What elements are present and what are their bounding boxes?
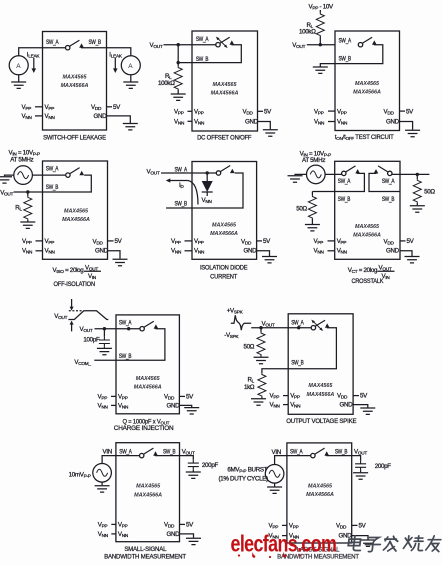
svg-text:AT 5MHz: AT 5MHz (10, 156, 33, 163)
svg-text:SW_B: SW_B (335, 449, 348, 456)
svg-text:VPP: VPP (45, 238, 55, 245)
svg-text:SW_B: SW_B (46, 184, 59, 191)
svg-text:VNN: VNN (98, 402, 108, 409)
svg-text:VNN: VNN (118, 402, 128, 409)
svg-text:VPP: VPP (118, 521, 128, 528)
svg-text:VDD: VDD (336, 522, 347, 529)
svg-text:VDD: VDD (384, 108, 395, 115)
svg-text:OUTPUT VOLTAGE SPIKE: OUTPUT VOLTAGE SPIKE (286, 418, 356, 425)
svg-text:100pF: 100pF (83, 336, 100, 343)
svg-text:100kΩ: 100kΩ (158, 80, 175, 87)
svg-text:VIN: VIN (88, 273, 96, 280)
svg-text:1kΩ: 1kΩ (244, 384, 255, 391)
svg-text:VPP: VPP (314, 238, 324, 245)
svg-text:VCT = 20log: VCT = 20log (348, 267, 378, 274)
svg-text:VDD: VDD (164, 393, 175, 400)
svg-text:6MVP-P BURST: 6MVP-P BURST (227, 467, 267, 474)
svg-text:VPP: VPP (22, 238, 32, 245)
svg-text:5V: 5V (186, 521, 194, 528)
svg-text:SW_A: SW_A (196, 36, 209, 43)
svg-text:VOUT: VOUT (0, 189, 13, 196)
svg-text:VPP: VPP (171, 238, 181, 245)
svg-text:ID: ID (179, 182, 184, 189)
svg-text:5V: 5V (406, 108, 414, 115)
svg-text:GND: GND (167, 402, 181, 409)
svg-text:5V: 5V (186, 393, 194, 400)
svg-text:VPP: VPP (269, 522, 279, 529)
svg-text:ILEAK: ILEAK (27, 52, 41, 59)
svg-text:VDD: VDD (241, 238, 252, 245)
svg-text:VCOM_: VCOM_ (74, 359, 91, 366)
svg-text:VNN: VNN (202, 197, 212, 204)
svg-text:SW_B: SW_B (175, 201, 188, 208)
svg-text:VPP: VPP (174, 108, 184, 115)
svg-text:VPP: VPP (194, 238, 204, 245)
svg-text:SW_B: SW_B (338, 196, 351, 203)
svg-text:SW_B: SW_B (89, 39, 102, 46)
svg-text:VOUT: VOUT (150, 42, 163, 49)
svg-text:SW_A: SW_A (46, 39, 59, 46)
svg-text:VNN: VNN (314, 248, 324, 255)
svg-text:GND: GND (95, 248, 109, 255)
svg-text:MAX4566A: MAX4566A (211, 91, 239, 97)
svg-text:+VSPK: +VSPK (227, 307, 244, 314)
svg-text:MAX4566A: MAX4566A (353, 233, 381, 239)
svg-text:VOUT: VOUT (379, 265, 392, 272)
svg-text:VOUT: VOUT (262, 321, 275, 328)
svg-text:VNN: VNN (174, 118, 184, 125)
svg-text:SMALL-SIGNAL: SMALL-SIGNAL (124, 546, 167, 553)
svg-text:5V: 5V (407, 238, 415, 245)
svg-text:50Ω: 50Ω (424, 188, 435, 195)
svg-text:VNN: VNN (337, 248, 347, 255)
svg-text:GND: GND (386, 248, 400, 255)
svg-text:SW_A: SW_A (290, 449, 303, 456)
svg-text:A: A (16, 63, 21, 70)
svg-text:SW_A: SW_A (291, 319, 304, 326)
svg-text:GND: GND (340, 402, 354, 409)
svg-text:GND: GND (244, 248, 258, 255)
svg-text:(1% DUTY CYCLE): (1% DUTY CYCLE) (219, 475, 269, 482)
svg-text:VPP - 10V: VPP - 10V (309, 4, 334, 11)
svg-text:VPP: VPP (98, 521, 108, 528)
svg-text:5V: 5V (263, 238, 271, 245)
svg-text:VOUT: VOUT (54, 313, 67, 320)
svg-text:5V: 5V (360, 393, 368, 400)
svg-text:BANDWIDTH MEASUREMENT: BANDWIDTH MEASUREMENT (104, 553, 186, 560)
svg-text:VNN: VNN (194, 118, 204, 125)
svg-text:MAX4565: MAX4565 (212, 223, 237, 229)
svg-text:VOUT: VOUT (147, 169, 160, 176)
svg-text:MAX4566A: MAX4566A (61, 83, 89, 89)
svg-text:tON/tOFF TEST CIRCUIT: tON/tOFF TEST CIRCUIT (335, 135, 394, 141)
svg-text:VPP: VPP (290, 393, 300, 400)
svg-text:VPP: VPP (337, 108, 347, 115)
svg-text:SWITCH-OFF LEAKAGE: SWITCH-OFF LEAKAGE (43, 135, 106, 141)
svg-text:MAX4566A: MAX4566A (210, 231, 238, 237)
svg-text:SW_A: SW_A (119, 320, 132, 327)
svg-text:MAX4565: MAX4565 (136, 376, 161, 382)
svg-text:MAX4565: MAX4565 (355, 224, 380, 230)
svg-text:VPP: VPP (118, 393, 128, 400)
svg-text:VPP: VPP (270, 393, 280, 400)
svg-text:ISOLATION DIODE: ISOLATION DIODE (200, 265, 248, 271)
svg-text:VNN: VNN (22, 113, 32, 120)
svg-text:VPP: VPP (98, 393, 108, 400)
svg-text:GND: GND (245, 118, 259, 125)
svg-text:VOUT: VOUT (80, 326, 93, 333)
svg-text:SW_A: SW_A (119, 449, 132, 456)
svg-text:MAX4565: MAX4565 (213, 82, 238, 88)
svg-text:50Ω: 50Ω (296, 206, 307, 213)
svg-text:VDD: VDD (93, 238, 104, 245)
svg-text:DC OFFSET ON/OFF: DC OFFSET ON/OFF (197, 135, 252, 141)
svg-text:OFF-ISOLATION: OFF-ISOLATION (53, 282, 94, 288)
svg-text:VIN: VIN (272, 449, 281, 456)
svg-text:MAX4566A: MAX4566A (306, 492, 334, 498)
svg-text:VNN: VNN (45, 113, 55, 120)
svg-text:CURRENT: CURRENT (210, 274, 237, 280)
svg-text:GND: GND (386, 119, 400, 126)
svg-text:5V: 5V (359, 522, 367, 529)
svg-text:SW_A: SW_A (46, 166, 59, 173)
svg-text:VNN: VNN (194, 248, 204, 255)
svg-text:SW_B: SW_B (339, 56, 352, 63)
svg-text:VNN: VNN (314, 119, 324, 126)
svg-text:VNN: VNN (22, 248, 32, 255)
svg-text:-VSPK: -VSPK (224, 332, 239, 339)
svg-text:SW_A: SW_A (382, 178, 395, 185)
svg-text:RL: RL (248, 376, 255, 383)
svg-text:VPP: VPP (194, 108, 204, 115)
svg-text:ILEAK: ILEAK (109, 52, 123, 59)
svg-text:5V: 5V (113, 104, 121, 111)
svg-text:VDD: VDD (243, 108, 254, 115)
svg-text:MAX4565: MAX4565 (136, 484, 161, 490)
svg-text:CHARGE INJECTION: CHARGE INJECTION (114, 425, 174, 432)
svg-text:VIN: VIN (103, 449, 112, 456)
svg-text:VOUT: VOUT (85, 265, 98, 272)
svg-text:VPP: VPP (289, 522, 299, 529)
svg-text:VNN: VNN (118, 531, 128, 538)
svg-text:SW_A: SW_A (339, 38, 352, 45)
svg-text:200pF: 200pF (202, 462, 219, 469)
svg-text:MAX4566A: MAX4566A (306, 392, 334, 398)
svg-text:VDD: VDD (164, 521, 175, 528)
svg-text:VPP: VPP (22, 104, 32, 111)
svg-text:SW_A: SW_A (175, 167, 188, 174)
svg-text:AT 5MHz: AT 5MHz (302, 157, 325, 164)
svg-text:MAX4566A: MAX4566A (134, 492, 162, 498)
svg-text:SW_B: SW_B (382, 196, 395, 203)
svg-text:CROSSTALK: CROSSTALK (351, 279, 383, 285)
svg-text:MAX4566A: MAX4566A (62, 217, 90, 223)
svg-text:100kΩ: 100kΩ (299, 29, 316, 36)
svg-text:MAX4566A: MAX4566A (353, 90, 381, 96)
svg-text:VOUT: VOUT (292, 42, 305, 49)
svg-text:VNN: VNN (45, 248, 55, 255)
svg-text:VDD: VDD (384, 238, 395, 245)
svg-text:50Ω: 50Ω (244, 344, 255, 351)
svg-text:VNN: VNN (270, 402, 280, 409)
svg-text:RL: RL (15, 205, 22, 212)
svg-text:SW_B: SW_B (291, 360, 304, 367)
svg-text:MAX4565: MAX4565 (355, 81, 380, 87)
svg-text:VNN: VNN (337, 119, 347, 126)
svg-text:200pF: 200pF (375, 463, 392, 470)
svg-text:10mVP-P: 10mVP-P (69, 471, 91, 478)
svg-text:A: A (128, 63, 133, 70)
svg-text:MAX4565: MAX4565 (308, 383, 333, 389)
svg-text:5V: 5V (264, 108, 272, 115)
svg-text:VPP: VPP (314, 108, 324, 115)
svg-text:VPP: VPP (45, 104, 55, 111)
svg-text:VNN: VNN (290, 402, 300, 409)
svg-text:MAX4565: MAX4565 (64, 209, 89, 215)
svg-text:SW_A: SW_A (338, 178, 351, 185)
svg-text:SW_B: SW_B (196, 56, 209, 63)
svg-text:VOUT: VOUT (182, 449, 195, 456)
svg-text:MAX4566A: MAX4566A (134, 385, 162, 391)
svg-text:VPP: VPP (337, 238, 347, 245)
svg-text:VNN: VNN (171, 248, 181, 255)
svg-text:SW_B: SW_B (163, 449, 176, 456)
svg-text:MAX4565: MAX4565 (63, 75, 88, 81)
svg-text:SW_B: SW_B (119, 353, 132, 360)
svg-text:GND: GND (94, 113, 108, 120)
svg-text:VISO = 20log: VISO = 20log (53, 267, 85, 274)
svg-text:VDD: VDD (91, 104, 102, 111)
svg-text:VDD: VDD (337, 393, 348, 400)
svg-text:VIN = 10VP-P: VIN = 10VP-P (9, 149, 40, 156)
svg-text:VOUT: VOUT (354, 449, 367, 456)
svg-text:GND: GND (167, 531, 181, 538)
svg-text:VNN: VNN (98, 531, 108, 538)
svg-text:5V: 5V (115, 238, 123, 245)
svg-text:MAX4565: MAX4565 (308, 484, 333, 490)
